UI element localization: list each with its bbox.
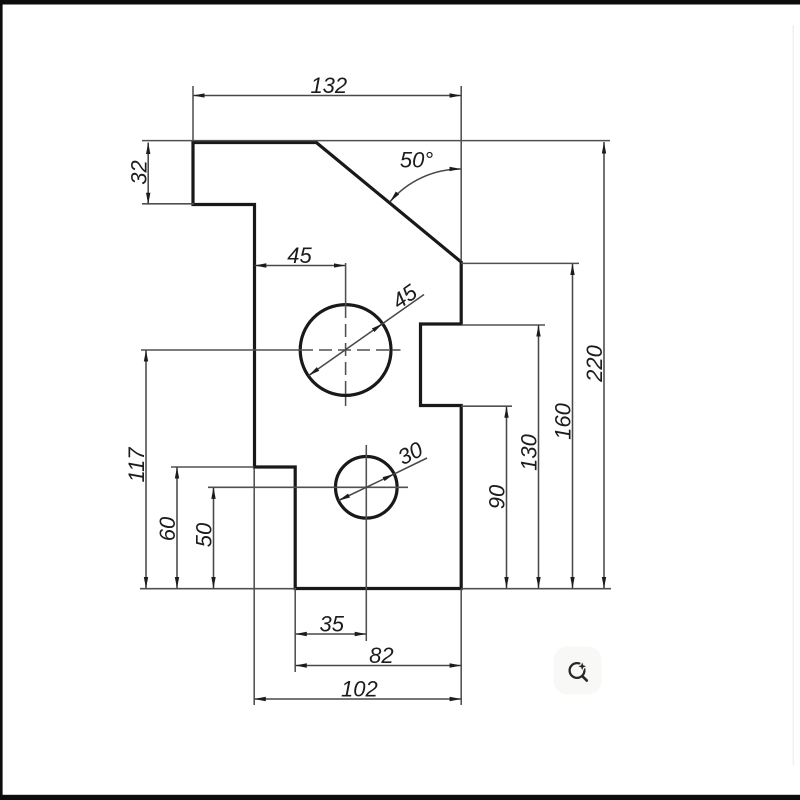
extension line top-left vertical x193 [192,86,194,141]
dimension 160 [572,263,574,588]
leader D45 [383,295,424,324]
centerline big circle vertical [345,263,347,305]
svg-text:132: 132 [310,73,347,98]
lens icon sparkle white gap [578,663,586,671]
leader D30 [394,458,427,474]
lens icon magnifier circle [570,663,585,678]
extension line long horizontal y140.6 [142,140,610,142]
frame faint right line [793,25,794,765]
extension line right-edge-down x461 [460,589,462,705]
dimension 82 [295,665,461,667]
dimension 117 [145,350,147,589]
extension line top-right vertical x461 [460,86,462,261]
lens icon background [554,647,602,695]
frame border top [0,0,800,5]
centerline small circle vertical [365,445,367,641]
extension line left-edge-down x254 [253,468,255,705]
extension line 60-step y467 [171,466,254,468]
hole circle D45 [300,305,391,396]
extension line bottom-right y588.5 [461,588,611,590]
svg-text:45: 45 [287,243,312,268]
dimension D45 diagonal [309,324,383,376]
dimension D30 diagonal [339,474,394,500]
dimension angle 50deg arc [390,169,461,202]
svg-text:50°: 50° [400,148,433,173]
part outline [193,143,461,589]
extension line diag-end y263.4 [461,262,579,264]
extension line notch-bottom y406 [461,405,512,407]
lens icon handle [583,677,587,681]
svg-text:220: 220 [582,344,607,382]
svg-text:102: 102 [341,676,378,701]
extension line step y204 [142,203,194,205]
frame border left [0,0,3,800]
svg-text:82: 82 [369,643,393,668]
svg-text:35: 35 [320,611,345,636]
svg-text:32: 32 [126,160,151,184]
centerline big circle horizontal [141,349,300,351]
dimension 32 [147,143,149,205]
extension line corner-down x295 [294,589,296,672]
dimension 35 [295,633,366,635]
centerline small circle horizontal [208,486,408,488]
svg-text:117: 117 [124,447,149,483]
dimension 130 [538,325,540,589]
svg-text:50: 50 [192,522,217,547]
extension line notch-top y325 [461,324,545,326]
svg-text:160: 160 [551,402,576,439]
svg-text:60: 60 [155,516,180,541]
dimension 45 horizontal [255,265,346,267]
dimension 90 [506,406,508,588]
extension line bottom-left y588.5 [140,588,296,590]
svg-text:130: 130 [517,433,542,470]
dimension 132 [193,95,461,97]
dimension 50 [213,487,215,588]
dimension 102 [254,698,461,700]
lens icon sparkle star [578,663,586,671]
hole circle D30 [336,457,398,519]
frame border bottom [0,795,800,800]
svg-text:90: 90 [485,484,510,509]
dimension 220 [603,142,605,589]
dimension 60 [176,467,178,589]
